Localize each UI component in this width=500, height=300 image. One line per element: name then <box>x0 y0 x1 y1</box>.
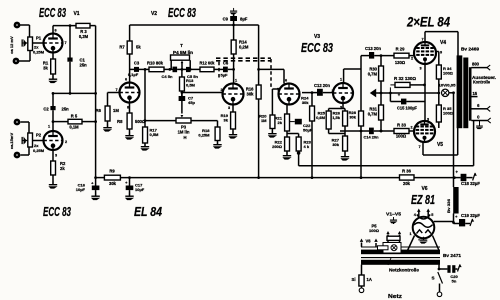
svg-text:20k: 20k <box>403 181 411 186</box>
svg-text:2: 2 <box>331 89 333 93</box>
svg-text:200Ω: 200Ω <box>272 144 283 149</box>
svg-text:0,2M: 0,2M <box>239 45 249 50</box>
svg-text:100Ω: 100Ω <box>369 228 380 233</box>
svg-text:30k: 30k <box>302 100 309 105</box>
svg-text:100Ω: 100Ω <box>443 111 454 116</box>
svg-text:100Ω: 100Ω <box>396 134 407 139</box>
svg-text:C19 32µF: C19 32µF <box>461 213 480 218</box>
svg-text:R8: R8 <box>117 119 123 124</box>
svg-text:V1–V5: V1–V5 <box>386 212 401 217</box>
svg-text:ca.15mV: ca.15mV <box>9 133 14 150</box>
svg-text:R 5: R 5 <box>71 114 78 119</box>
svg-text:1M: 1M <box>261 118 267 123</box>
svg-text:Netzkontrolle: Netzkontrolle <box>389 268 420 273</box>
svg-text:30k: 30k <box>332 142 339 147</box>
svg-text:Bv 2469: Bv 2469 <box>461 47 480 52</box>
svg-text:3: 3 <box>427 118 429 122</box>
svg-text:3k: 3k <box>43 66 48 71</box>
svg-text:R7: R7 <box>119 45 125 50</box>
svg-text:H: H <box>183 135 186 140</box>
svg-text:R 36: R 36 <box>402 169 412 174</box>
svg-text:C18 32µF: C18 32µF <box>461 181 480 186</box>
svg-text:8µF: 8µF <box>240 17 248 22</box>
svg-text:C12 20n: C12 20n <box>314 83 330 88</box>
svg-text:R 33: R 33 <box>397 123 407 128</box>
svg-text:ECC 83: ECC 83 <box>39 5 66 20</box>
svg-text:C4 5n: C4 5n <box>162 74 173 79</box>
svg-text:R10 80k: R10 80k <box>147 61 164 66</box>
svg-text:V2: V2 <box>151 11 157 17</box>
svg-text:2k: 2k <box>278 120 283 125</box>
svg-text:0,5M: 0,5M <box>150 132 160 137</box>
svg-text:9: 9 <box>440 51 442 55</box>
svg-text:7: 7 <box>64 41 66 45</box>
svg-text:30k: 30k <box>349 115 356 120</box>
svg-text:2k: 2k <box>60 166 65 171</box>
svg-text:R6: R6 <box>96 108 102 113</box>
svg-text:V4: V4 <box>440 40 446 46</box>
svg-text:ECC 83: ECC 83 <box>43 204 71 219</box>
svg-text:30k: 30k <box>247 92 255 97</box>
svg-text:P2: P2 <box>36 133 42 138</box>
svg-text:R12 60k: R12 60k <box>200 61 216 66</box>
svg-text:1M: 1M <box>113 108 119 113</box>
svg-text:0,25M: 0,25M <box>33 50 45 55</box>
svg-text:2: 2 <box>411 57 413 61</box>
svg-text:1: 1 <box>48 125 50 129</box>
svg-text:6: 6 <box>54 29 56 33</box>
svg-text:Kontrolle: Kontrolle <box>473 80 491 85</box>
svg-text:C2: C2 <box>43 107 49 112</box>
svg-text:3: 3 <box>55 154 57 158</box>
svg-text:5k: 5k <box>136 45 141 50</box>
svg-text:10µF: 10µF <box>135 187 145 192</box>
svg-text:8: 8 <box>127 106 129 110</box>
svg-text:C9: C9 <box>223 17 229 22</box>
svg-text:25n: 25n <box>80 63 88 68</box>
svg-text:0,7M: 0,7M <box>368 112 378 117</box>
svg-text:Bv 336: Bv 336 <box>446 198 451 213</box>
svg-text:C3: C3 <box>134 61 140 66</box>
svg-text:3k: 3k <box>224 118 229 123</box>
svg-text:130Ω: 130Ω <box>395 60 406 65</box>
svg-text:0,2M: 0,2M <box>79 34 89 39</box>
svg-text:1: 1 <box>235 79 237 83</box>
svg-text:1M lin: 1M lin <box>178 130 190 135</box>
svg-text:R9: R9 <box>109 169 115 174</box>
svg-text:5n: 5n <box>452 279 457 284</box>
svg-text:V1: V1 <box>73 11 79 17</box>
svg-text:45p: 45p <box>188 100 195 105</box>
svg-text:2: 2 <box>65 140 67 144</box>
svg-text:Si: Si <box>352 277 356 282</box>
svg-text:C13 20n: C13 20n <box>365 46 381 51</box>
svg-text:25n: 25n <box>62 107 70 112</box>
svg-text:ECC 83: ECC 83 <box>301 40 333 55</box>
svg-text:Netz: Netz <box>388 294 402 300</box>
svg-text:0,6M: 0,6M <box>316 115 326 120</box>
svg-text:C14 20n: C14 20n <box>364 135 380 140</box>
svg-text:15: 15 <box>472 91 477 96</box>
svg-text:S: S <box>431 276 434 281</box>
svg-text:ca 12 mV: ca 12 mV <box>9 36 14 54</box>
svg-text:P4 5M lin: P4 5M lin <box>173 50 193 55</box>
svg-text:V6: V6 <box>365 239 371 244</box>
svg-text:EZ 81: EZ 81 <box>411 192 435 207</box>
svg-text:2×EL 84: 2×EL 84 <box>406 14 450 30</box>
svg-text:30k: 30k <box>109 181 117 186</box>
svg-text:10V/0,05: 10V/0,05 <box>439 83 457 88</box>
svg-text:6: 6 <box>285 79 287 83</box>
svg-text:R 29: R 29 <box>396 47 406 52</box>
svg-text:5: 5 <box>431 213 433 217</box>
svg-text:V6: V6 <box>421 186 427 192</box>
svg-text:4 k: 4 k <box>304 144 310 149</box>
svg-text:0,1M: 0,1M <box>69 125 79 130</box>
svg-text:V3: V3 <box>314 34 320 40</box>
svg-text:C15 100µF: C15 100µF <box>397 106 417 111</box>
svg-text:7: 7 <box>418 145 420 149</box>
svg-text:2: 2 <box>410 126 412 130</box>
svg-text:0,25M: 0,25M <box>198 133 210 138</box>
svg-text:7: 7 <box>421 38 423 42</box>
svg-text:0,7M: 0,7M <box>368 72 378 77</box>
svg-text:ECC 83: ECC 83 <box>168 5 196 20</box>
svg-text:T: T <box>180 43 183 48</box>
svg-text:P1: P1 <box>36 36 42 41</box>
svg-text:1: 1 <box>409 232 411 236</box>
svg-text:1,5k: 1,5k <box>332 115 341 120</box>
svg-text:V5: V5 <box>437 142 443 148</box>
svg-text:7: 7 <box>115 88 117 92</box>
svg-text:Bv 2471: Bv 2471 <box>443 253 461 258</box>
svg-text:3: 3 <box>419 67 421 71</box>
svg-text:1A: 1A <box>367 277 372 282</box>
svg-text:2: 2 <box>220 88 222 92</box>
svg-text:100Ω: 100Ω <box>443 71 454 76</box>
svg-text:1: 1 <box>340 78 342 82</box>
svg-text:R 32 130Ω: R 32 130Ω <box>394 76 416 81</box>
svg-text:10µF: 10µF <box>76 187 86 192</box>
svg-text:6: 6 <box>125 78 127 82</box>
svg-text:5µF: 5µF <box>221 73 229 78</box>
svg-text:800: 800 <box>472 62 480 67</box>
svg-text:0,1µF: 0,1µF <box>128 72 139 77</box>
svg-text:0,25M: 0,25M <box>33 148 45 153</box>
svg-text:EL 84: EL 84 <box>134 204 163 219</box>
svg-text:3: 3 <box>228 106 230 110</box>
svg-text:0,5M: 0,5M <box>186 83 196 88</box>
